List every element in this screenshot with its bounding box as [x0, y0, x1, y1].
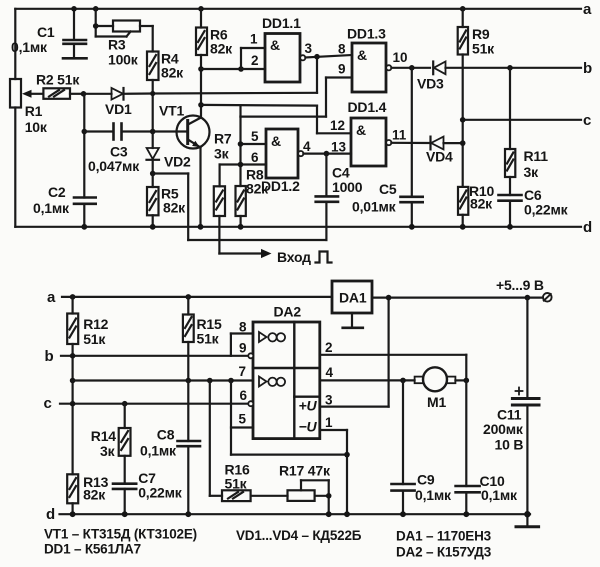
- junction pin5 branch on pin7 line: [228, 378, 234, 384]
- footer part list: [44, 527, 492, 560]
- svg-text:R17 47к: R17 47к: [279, 463, 331, 479]
- label VD4: [426, 149, 453, 165]
- svg-text:a: a: [47, 289, 56, 306]
- label R2 value: [36, 72, 80, 88]
- wire collector branch to DD1.3 pin 9: [241, 78, 353, 117]
- svg-text:13: 13: [331, 140, 347, 155]
- svg-text:0,1мк: 0,1мк: [11, 39, 48, 55]
- svg-text:82к: 82к: [83, 487, 106, 503]
- svg-text:0,22мк: 0,22мк: [524, 202, 569, 218]
- svg-text:12: 12: [330, 118, 345, 133]
- resistor R7 3к: [214, 165, 225, 254]
- terminal +5...9 В: [543, 293, 552, 302]
- svg-text:VD1: VD1: [105, 101, 132, 117]
- junction VT1 base node: [150, 129, 156, 135]
- svg-text:DA2 – К157УД3: DA2 – К157УД3: [396, 545, 492, 560]
- junction R15 / C8 on pin7 line: [186, 378, 192, 384]
- capacitor C1 with sensor stub: [63, 9, 87, 59]
- label R8 value: [246, 167, 269, 197]
- svg-text:6: 6: [251, 150, 259, 165]
- wire base node to VT1: [153, 130, 188, 132]
- label R12 value: [83, 316, 108, 347]
- svg-text:DD1.1: DD1.1: [262, 15, 301, 31]
- svg-text:DA1: DA1: [339, 290, 367, 306]
- junction VD4 node: [460, 140, 466, 146]
- svg-text:3к: 3к: [524, 164, 540, 180]
- opamp symbol DA2 cell 1: [259, 332, 285, 342]
- svg-text:C9: C9: [417, 472, 435, 488]
- resistor R14 3к: [119, 401, 131, 484]
- label R11 value: [524, 148, 549, 180]
- svg-text:VD1...VD4 – КД522Б: VD1...VD4 – КД522Б: [236, 528, 362, 543]
- wire DA2 pin 7 line: [73, 379, 253, 381]
- pin 6 bubble DA2: [248, 401, 253, 406]
- potentiometer R1 10к: [10, 79, 43, 108]
- wire rail c (top section): [463, 119, 581, 121]
- svg-text:1000: 1000: [332, 179, 363, 195]
- regulator DA1 (1170ЕН3): [332, 281, 372, 313]
- junction R12 chain on rail b: [70, 353, 76, 359]
- wire rail a (top section): [15, 8, 581, 10]
- svg-text:11: 11: [392, 128, 407, 143]
- label VD1: [105, 101, 132, 117]
- wire rail c (bottom section): [60, 403, 249, 405]
- capacitor C8 0,1мк: [178, 381, 201, 515]
- svg-text:VT1 – КТ315Д (КТ3102Е): VT1 – КТ315Д (КТ3102Е): [44, 527, 197, 542]
- resistor R6 82к: [196, 6, 207, 118]
- ground symbol below DA1: [343, 313, 363, 328]
- svg-text:2: 2: [251, 53, 259, 68]
- capacitor C7 0,22мк: [113, 484, 136, 515]
- junction M1 right / C10 / pin2: [464, 378, 470, 384]
- label R14 value: [91, 428, 116, 459]
- svg-text:1: 1: [325, 415, 333, 430]
- svg-text:1: 1: [250, 32, 258, 47]
- label R9 value: [472, 26, 495, 57]
- svg-text:&: &: [271, 133, 281, 149]
- label C4 value: [332, 165, 363, 196]
- diode VD3: [433, 62, 581, 75]
- junction R3 branch on rail a: [93, 6, 99, 12]
- pin 9 bubble DA2: [248, 353, 253, 358]
- label C8 value: [140, 427, 177, 459]
- svg-text:R2 51к: R2 51к: [36, 72, 80, 88]
- svg-text:9: 9: [338, 62, 346, 77]
- gate DD1.3: [352, 43, 430, 92]
- svg-text:R11: R11: [524, 148, 549, 164]
- svg-text:82к: 82к: [470, 196, 493, 212]
- junction R16 branch on pin7 line: [207, 378, 213, 384]
- label R4 value: [161, 51, 184, 81]
- label +5...9 В: [496, 277, 544, 293]
- label VT1: [159, 103, 184, 119]
- svg-text:VT1: VT1: [159, 103, 184, 119]
- svg-text:C2: C2: [48, 184, 66, 200]
- wire rail a (bottom section): [62, 296, 332, 298]
- resistor R17 47к (trimmer): [251, 480, 332, 514]
- wire collector line to DD1.4 pin 12: [201, 105, 351, 133]
- svg-text:R7: R7: [214, 131, 232, 147]
- svg-text:R12: R12: [83, 316, 108, 332]
- wire Вход Л input arrow: [219, 249, 271, 258]
- svg-text:DD1.3: DD1.3: [347, 26, 386, 42]
- junction feedback node: [344, 452, 350, 458]
- svg-text:5: 5: [239, 412, 247, 427]
- junction R12 chain on pin7 line: [70, 378, 76, 384]
- label C5 value: [352, 181, 397, 215]
- junction R4 on VD1 line: [150, 91, 155, 96]
- opamp DA2 (К157УД3): [253, 322, 320, 439]
- resistor R8 82к: [236, 186, 246, 227]
- resistor R9 51к: [458, 6, 468, 187]
- svg-text:R14: R14: [91, 428, 116, 444]
- resistor R15 51к: [183, 294, 194, 380]
- wire R6 node to DD1.1 inputs: [198, 48, 265, 72]
- svg-text:82к: 82к: [163, 200, 186, 216]
- svg-text:a: a: [583, 1, 592, 18]
- svg-text:b: b: [45, 348, 54, 365]
- svg-text:+U: +U: [299, 398, 318, 414]
- svg-text:0,01мк: 0,01мк: [352, 199, 397, 215]
- svg-text:8: 8: [239, 320, 247, 335]
- label R13 value: [83, 474, 108, 503]
- svg-text:51к: 51к: [472, 41, 495, 57]
- capacitor C11 200мк 10В (electrolytic): [512, 298, 539, 515]
- label R7 value: [214, 131, 232, 162]
- resistor R16 51к: [210, 381, 251, 502]
- label C6 value: [524, 187, 569, 218]
- label C3 value: [88, 144, 140, 175]
- svg-text:C1: C1: [37, 24, 55, 40]
- label C10 value: [480, 473, 519, 503]
- svg-text:82к: 82к: [161, 65, 184, 81]
- svg-text:3к: 3к: [100, 443, 116, 459]
- svg-text:C5: C5: [379, 181, 397, 197]
- svg-text:d: d: [46, 506, 55, 523]
- resistor R12 51к: [67, 294, 78, 474]
- junction VD2 / R5 / loop node: [150, 171, 156, 177]
- svg-text:5: 5: [251, 129, 259, 144]
- svg-text:8: 8: [338, 42, 346, 57]
- label R17 value: [279, 463, 331, 479]
- label R6 value: [210, 27, 233, 57]
- junction C11 on supply rail: [525, 295, 531, 301]
- label R15 value: [197, 316, 222, 347]
- svg-text:0,1мк: 0,1мк: [481, 487, 518, 503]
- junction C1 on rail a: [71, 6, 77, 12]
- label C1 value: [11, 24, 55, 55]
- wire +5...9V supply rail: [372, 297, 543, 299]
- junction DA1 output: [386, 295, 392, 301]
- junction DD1.1 output / feedback: [314, 54, 320, 60]
- junction dots on bottom rail d: [70, 511, 531, 517]
- label R10 value: [469, 183, 494, 212]
- resistor R11 3к: [505, 68, 515, 195]
- svg-text:VD3: VD3: [417, 76, 444, 92]
- svg-text:C8: C8: [157, 427, 175, 443]
- motor M1: [415, 367, 467, 391]
- svg-text:200мк: 200мк: [483, 421, 524, 437]
- svg-text:d: d: [583, 219, 592, 236]
- label C9 value: [415, 472, 452, 504]
- svg-text:&: &: [357, 47, 367, 63]
- junction C3 tap on C2 branch: [82, 129, 88, 135]
- capacitor C3 0,047мк: [84, 124, 152, 140]
- resistor R4 82к: [147, 52, 159, 132]
- capacitor C10 0,1мк: [456, 380, 480, 514]
- svg-text:DD1 – К561ЛА7: DD1 – К561ЛА7: [44, 542, 141, 557]
- svg-text:VD4: VD4: [426, 149, 453, 165]
- svg-text:6: 6: [240, 388, 248, 403]
- svg-text:M1: M1: [427, 394, 446, 410]
- label VD2: [164, 154, 191, 170]
- wire C2 branch: [83, 94, 85, 198]
- svg-text:10к: 10к: [25, 119, 48, 135]
- wire input bus DD1.2 / R7 / R8: [239, 117, 241, 186]
- capacitor C6 0,22мк: [499, 195, 522, 227]
- ground symbol at rail d end: [516, 514, 539, 527]
- junction R11 tap on rail b: [507, 65, 513, 71]
- svg-text:0,1мк: 0,1мк: [140, 443, 177, 459]
- svg-text:51к: 51к: [83, 331, 106, 347]
- wire rail b (bottom section): [61, 355, 249, 357]
- svg-text:82к: 82к: [246, 181, 269, 197]
- svg-text:10 В: 10 В: [495, 437, 524, 453]
- capacitor C5 0,01мк: [401, 68, 423, 227]
- svg-text:0,1мк: 0,1мк: [415, 487, 452, 503]
- label R1 value: [25, 103, 48, 135]
- label pulse symbol Л: [316, 252, 332, 263]
- svg-text:3к: 3к: [214, 146, 230, 162]
- svg-text:VD2: VD2: [164, 154, 191, 170]
- svg-text:DA2: DA2: [274, 304, 302, 320]
- label C7 value: [138, 470, 183, 501]
- gate DD1.2: [220, 129, 351, 178]
- wire DA2 pin 3 to +U rail: [320, 298, 389, 407]
- opamp symbol DA2 cell 2: [259, 377, 285, 387]
- wire DA2 pin 2 to motor: [320, 355, 467, 381]
- wire loop VD2 node to C4 bottom (under rail d): [153, 174, 327, 241]
- label R16 value: [225, 462, 250, 492]
- junction VT1 collector node: [198, 102, 204, 108]
- junction rail c start: [460, 117, 466, 123]
- resistor R5 82к: [147, 174, 159, 227]
- svg-text:c: c: [44, 395, 52, 412]
- svg-text:51к: 51к: [197, 331, 220, 347]
- gate DD1.4: [351, 118, 430, 166]
- diode VD2: [147, 132, 160, 174]
- capacitor C4 1000: [316, 154, 338, 240]
- wire DA2 pin 4 to motor left: [320, 379, 415, 381]
- svg-text:0,22мк: 0,22мк: [138, 485, 183, 501]
- svg-text:82к: 82к: [210, 41, 233, 57]
- junction DD1.3 output / C5: [409, 65, 415, 71]
- svg-text:−U: −U: [299, 419, 318, 435]
- svg-text:R1: R1: [25, 103, 43, 119]
- wire feedback line VD1 to DD1.1 output: [153, 57, 317, 93]
- diode VD4: [431, 137, 463, 150]
- svg-text:3: 3: [325, 393, 333, 408]
- svg-text:&: &: [356, 122, 366, 138]
- label Вход Л: [277, 249, 311, 265]
- resistor R13 82к: [67, 474, 78, 514]
- svg-text:DD1.4: DD1.4: [348, 99, 387, 115]
- capacitor C2 0,1мк: [74, 198, 96, 227]
- svg-text:9: 9: [239, 341, 247, 356]
- junction M1 left / C9 / pin4: [400, 378, 406, 384]
- svg-text:DA1 – 1170ЕН3: DA1 – 1170ЕН3: [396, 529, 492, 544]
- capacitor C9 0,1мк: [392, 380, 415, 514]
- resistor R10 82к: [458, 187, 468, 227]
- junction R12 chain on rail c: [70, 401, 76, 407]
- label C11 value: [483, 407, 524, 453]
- diode VD1: [84, 88, 153, 100]
- junction dots on top rail d: [81, 224, 513, 230]
- svg-text:0,047мк: 0,047мк: [88, 158, 140, 174]
- svg-text:10: 10: [393, 50, 408, 65]
- resistor R2 51к: [43, 88, 83, 99]
- wire DA2 pin 5 loop: [231, 381, 347, 455]
- junction C4 tap on pin 13 line: [324, 151, 330, 157]
- svg-text:b: b: [583, 60, 592, 77]
- svg-text:4: 4: [326, 365, 334, 380]
- wire DA2 pin 8 bracket to rail b: [231, 334, 253, 356]
- label R5 value: [161, 186, 186, 216]
- wire DA2 pin 1 to feedback node: [320, 430, 347, 514]
- junction R2 / C2 / VD1 node: [81, 91, 87, 97]
- label VD3: [417, 76, 444, 92]
- svg-text:&: &: [270, 37, 280, 53]
- svg-text:100к: 100к: [108, 52, 139, 68]
- svg-text:4: 4: [303, 139, 311, 154]
- wire rail d (top section): [15, 226, 581, 228]
- svg-text:2: 2: [325, 340, 333, 355]
- wire left vertical bus (rail a to rail d through R1): [14, 9, 16, 227]
- svg-text:R3: R3: [108, 37, 126, 53]
- svg-text:7: 7: [239, 364, 247, 379]
- svg-text:+5...9 В: +5...9 В: [496, 277, 544, 293]
- label R3 value: [108, 37, 139, 68]
- transistor VT1: [177, 116, 210, 227]
- svg-text:Вход: Вход: [277, 249, 311, 265]
- label C2 value: [33, 184, 70, 216]
- resistor R3 (trimmer 100к): [93, 9, 153, 52]
- wire rail d (bottom section): [60, 513, 531, 515]
- svg-text:0,1мк: 0,1мк: [33, 200, 70, 216]
- svg-text:3: 3: [305, 41, 313, 56]
- svg-text:51к: 51к: [225, 476, 248, 492]
- gate DD1.1 (K561LA7): [265, 34, 352, 83]
- svg-text:c: c: [583, 112, 591, 129]
